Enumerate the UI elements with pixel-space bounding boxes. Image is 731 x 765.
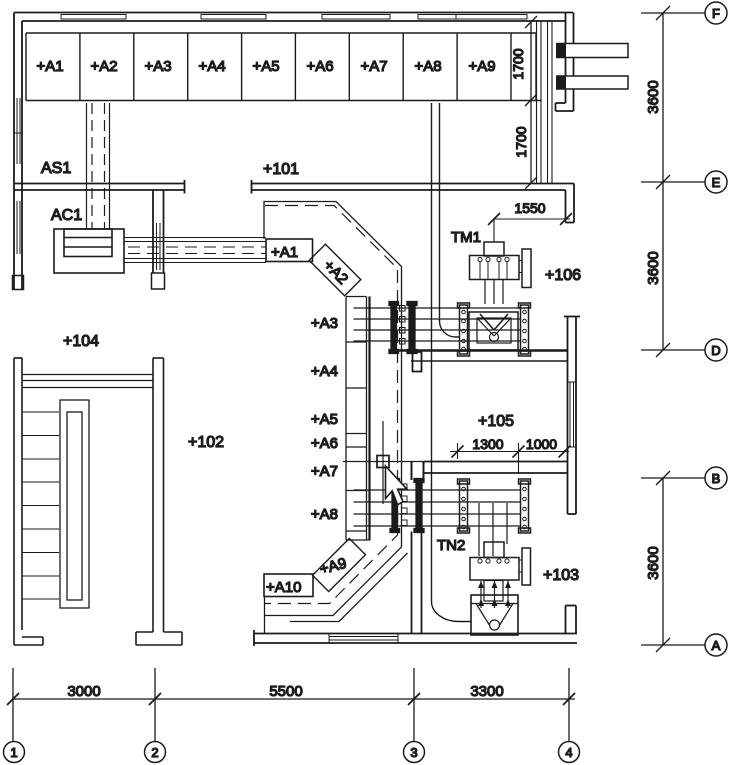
- wall crossing plates upper: [389, 302, 417, 354]
- TN2 cable arrowheads: [478, 581, 511, 606]
- AC1 room wall window: [157, 223, 161, 270]
- left wall window 1: [14, 98, 22, 164]
- TN2 termination left plate: [458, 479, 470, 533]
- top wall window 2: [201, 15, 266, 20]
- TN2 bay left wall: [412, 532, 422, 635]
- svg-text:1: 1: [10, 745, 17, 760]
- TM1 termination box: [469, 312, 518, 350]
- wall AS1/E row left: [14, 180, 185, 194]
- svg-text:+102: +102: [188, 434, 224, 451]
- cell +A2 box (diagonal): [309, 244, 361, 296]
- svg-text:E: E: [712, 175, 721, 190]
- bottom wall: [254, 630, 577, 646]
- axis circle 1: [4, 742, 25, 763]
- svg-text:A: A: [712, 638, 721, 653]
- dimension 1300/1000: [450, 443, 571, 474]
- wall B row (+105 bottom): [424, 462, 567, 474]
- pick box: [377, 456, 389, 468]
- mouse cursor arrow: [386, 466, 408, 505]
- grid line B: [641, 467, 727, 489]
- svg-text:+A1: +A1: [36, 58, 63, 75]
- wall pilaster below D: [413, 352, 422, 372]
- axis circle 4: [559, 742, 580, 763]
- top outer wall: [14, 13, 573, 22]
- svg-text:+104: +104: [63, 333, 99, 350]
- cable bundle +A7/+A8 to TN2: [354, 490, 521, 526]
- wall step at B row left: [412, 461, 424, 480]
- svg-text:3000: 3000: [67, 683, 100, 700]
- svg-text:+A8: +A8: [311, 506, 338, 523]
- bottom wall window: [329, 634, 398, 644]
- cable bundle +A3 to TM1: [354, 308, 521, 341]
- cells +A1..+A9 row: [26, 33, 541, 101]
- busbar outlet 2: [556, 76, 628, 89]
- svg-text:+101: +101: [263, 161, 299, 178]
- svg-text:+A4: +A4: [198, 58, 225, 75]
- feed arc to TM1: [440, 321, 460, 337]
- duct edge below +A10: [264, 597, 266, 634]
- grid line A: [641, 634, 727, 656]
- feed arc to TN2: [432, 602, 472, 622]
- svg-text:+103: +103: [543, 567, 579, 584]
- svg-text:3: 3: [410, 745, 417, 760]
- lineup duct boundary solid: [264, 202, 402, 616]
- axis circle 3: [404, 742, 425, 763]
- svg-text:+A9: +A9: [318, 555, 349, 578]
- cell +A10 box: [264, 574, 313, 597]
- svg-text:3600: 3600: [645, 546, 662, 579]
- TN2 cables to ground box: [481, 580, 508, 608]
- svg-text:+A5: +A5: [311, 411, 338, 428]
- bottom-right wall upturn: [566, 606, 577, 634]
- stair handrail: [60, 400, 89, 608]
- axis circle 2: [145, 742, 166, 763]
- wall +101 E row: [252, 180, 575, 194]
- svg-text:+A8: +A8: [414, 58, 441, 75]
- svg-text:1700: 1700: [510, 48, 526, 79]
- svg-text:+A6: +A6: [306, 58, 333, 75]
- svg-text:+A9: +A9: [468, 58, 495, 75]
- svg-text:AS1: AS1: [41, 160, 71, 177]
- busbar outlet 1: [556, 44, 628, 58]
- grid dimension B-A 3600: [645, 478, 663, 645]
- cell +A1 box: [266, 239, 313, 262]
- inner wall AC1 room right: [153, 190, 164, 273]
- top wall window 3: [322, 15, 390, 20]
- svg-text:D: D: [711, 343, 720, 358]
- svg-text:+A1: +A1: [271, 244, 298, 261]
- wall crossing plates lower: [390, 479, 424, 533]
- svg-text:1300: 1300: [472, 436, 503, 452]
- svg-text:3300: 3300: [470, 683, 503, 700]
- svg-text:+A3: +A3: [144, 58, 171, 75]
- svg-text:+A4: +A4: [311, 363, 338, 380]
- left wall end block: [13, 276, 24, 290]
- grid dimension F-E 3600: [645, 13, 663, 350]
- svg-text:3600: 3600: [645, 251, 662, 284]
- stair right wall: [136, 358, 182, 645]
- lineup duct boundary dashed: [265, 206, 398, 604]
- TN2 cables down from bundle: [479, 503, 507, 556]
- svg-text:+106: +106: [545, 267, 581, 284]
- transformer TM1: [470, 242, 532, 288]
- top-right wall: [556, 13, 574, 112]
- wall stub below E right: [566, 184, 575, 223]
- svg-text:+A3: +A3: [311, 315, 338, 332]
- AC1 room wall end block: [152, 273, 165, 289]
- svg-text:+A10: +A10: [266, 579, 301, 596]
- svg-text:TM1: TM1: [451, 229, 481, 246]
- svg-text:+A7: +A7: [311, 463, 338, 480]
- dimension 1700 lower: [513, 101, 537, 190]
- crosshair lines: [343, 421, 424, 504]
- TM1 termination left plate: [458, 303, 470, 356]
- svg-text:+A2: +A2: [320, 257, 351, 288]
- cell +A9 box (diagonal): [313, 539, 366, 592]
- stair left wall: [14, 358, 43, 645]
- shaft wall right of +101: [537, 21, 553, 184]
- svg-text:B: B: [712, 471, 721, 486]
- svg-text:+A2: +A2: [90, 58, 117, 75]
- right wall +105/+106: [564, 317, 580, 515]
- svg-text:+A6: +A6: [311, 435, 338, 452]
- TM1 termination right plate: [519, 303, 531, 356]
- svg-text:+105: +105: [478, 413, 514, 430]
- stair steps: [22, 412, 59, 599]
- dimension 1550: [488, 213, 572, 242]
- cells column +A3..+A8: [346, 297, 370, 541]
- cabinet AC1: [54, 229, 124, 273]
- horizontal duct AC1 to +A1: [124, 238, 266, 263]
- svg-text:4: 4: [565, 745, 572, 760]
- left outer wall: [14, 13, 22, 291]
- right wall window: [568, 382, 577, 447]
- grid line D: [641, 339, 727, 361]
- TN2 termination right plate: [519, 479, 531, 533]
- svg-text:5500: 5500: [269, 683, 302, 700]
- top wall window 1: [61, 15, 126, 20]
- svg-text:1000: 1000: [526, 436, 557, 452]
- dimension 1700 upper: [510, 16, 537, 106]
- svg-text:2: 2: [151, 745, 158, 760]
- svg-text:3600: 3600: [645, 80, 662, 113]
- wall D row (+105 top): [392, 351, 567, 362]
- bottom dimension line: [7, 668, 575, 741]
- TN2 ground box: [471, 595, 518, 635]
- top wall window 4: [418, 15, 527, 20]
- svg-text:1700: 1700: [513, 126, 529, 157]
- svg-text:+A5: +A5: [252, 58, 279, 75]
- grid line F: [641, 2, 727, 24]
- svg-text:F: F: [712, 6, 720, 21]
- svg-text:1550: 1550: [514, 200, 545, 216]
- svg-text:+A7: +A7: [360, 58, 387, 75]
- stair top beam: [22, 375, 153, 388]
- svg-text:AC1: AC1: [51, 207, 82, 224]
- left wall window 2: [17, 201, 20, 254]
- lineup duct boundary solid 2: [290, 553, 408, 622]
- transformer TN2: [470, 542, 531, 585]
- feed line pair from +A8 cell down: [432, 103, 440, 602]
- svg-text:TN2: TN2: [437, 537, 465, 554]
- cable duct from +A2 cell down to AC1: [87, 103, 110, 229]
- TM1 cables down: [485, 280, 503, 305]
- grid line E: [641, 171, 727, 193]
